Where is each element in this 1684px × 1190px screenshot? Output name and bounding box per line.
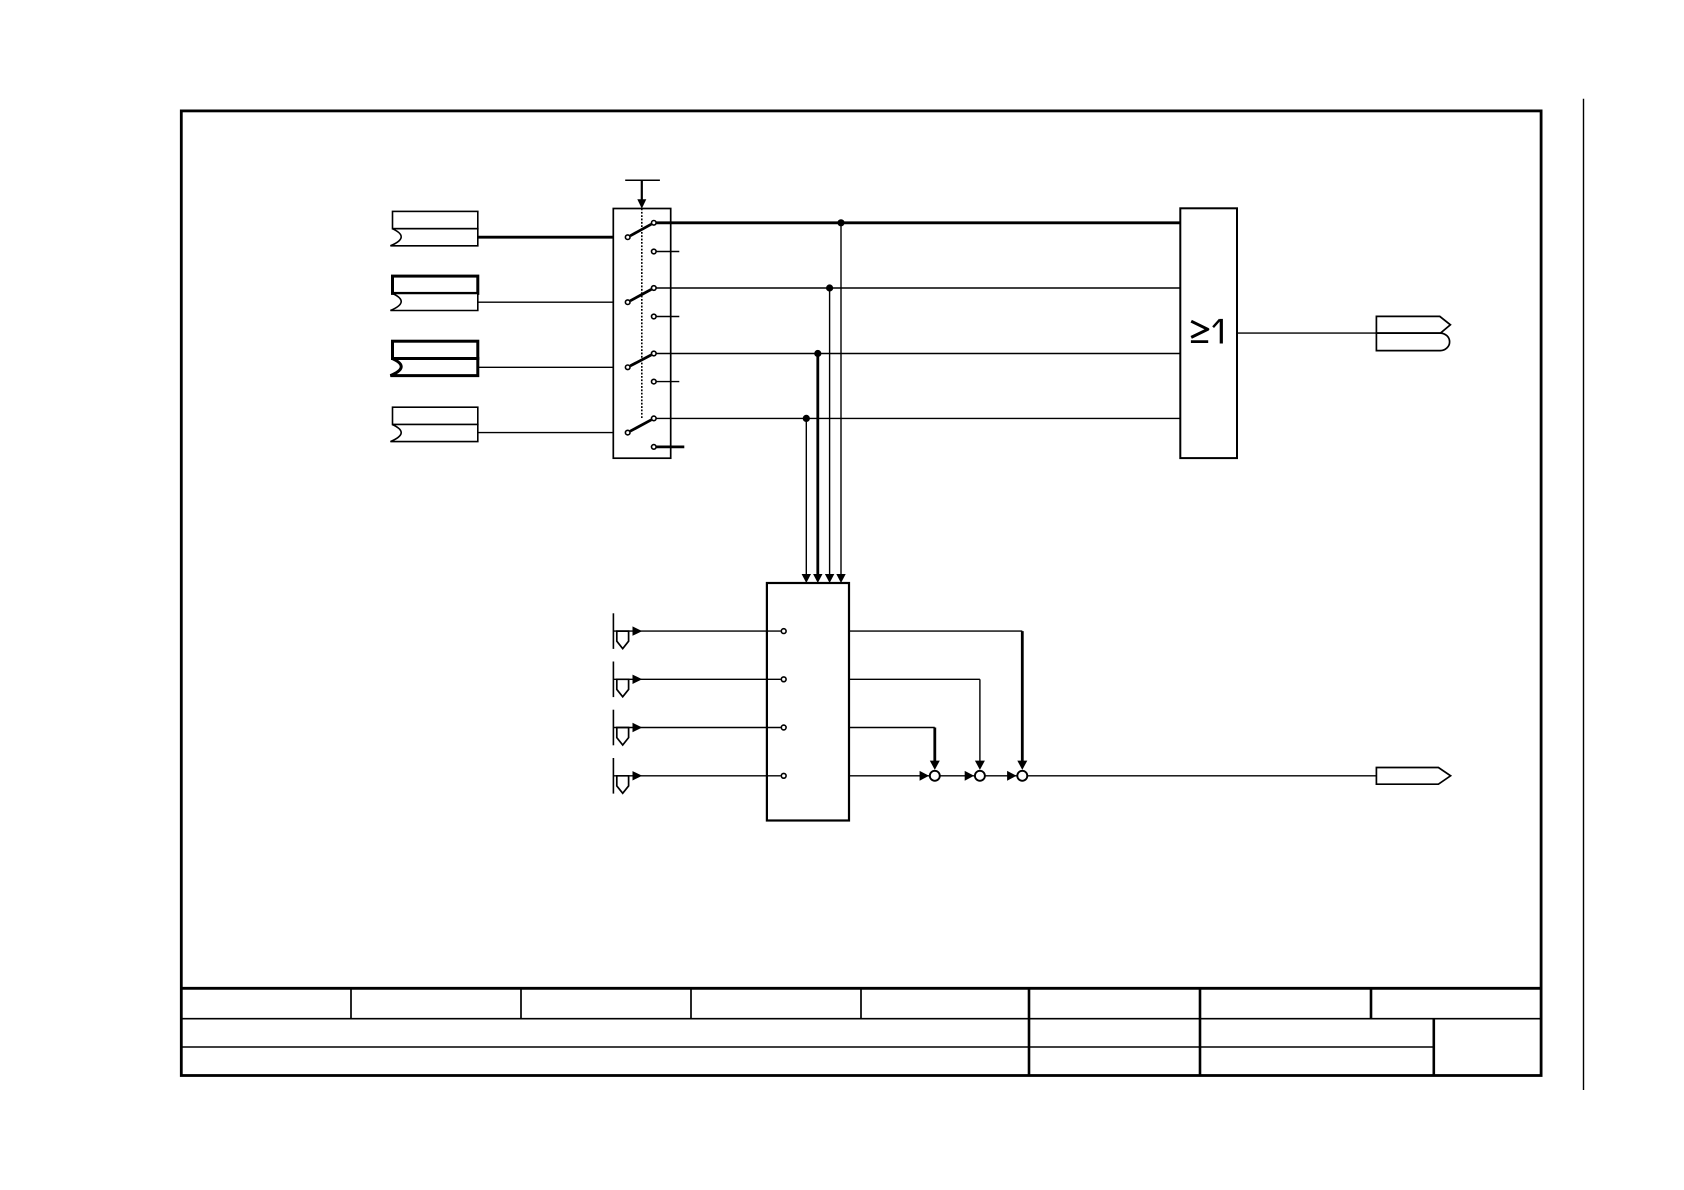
connector X1 (input) [390, 211, 477, 245]
node K2 [975, 771, 985, 781]
wire net N1: S1.1 to U1 [656, 221, 1180, 224]
drop to node K2 [979, 679, 981, 761]
drop to node K1 (bold) [933, 728, 936, 762]
U2 input contact row1 [781, 629, 786, 634]
U1 function label ">=1" [1191, 319, 1221, 344]
switch block S1 [613, 209, 670, 459]
connector X3 (input) [390, 341, 477, 375]
arrow into K1 [920, 771, 929, 781]
connector Y1 (output) [1376, 316, 1450, 350]
drop to node K3 (bold) [1021, 631, 1024, 761]
wire U2 out row2 [849, 678, 980, 680]
continuation flag F3 [613, 710, 780, 746]
U2 input contact row4 [781, 773, 786, 778]
node K3 [1017, 771, 1027, 781]
U2 input contact row3 [781, 725, 786, 730]
wire U2 out row1 [849, 630, 1022, 632]
OR gate U1 [1180, 208, 1237, 458]
U2 input contact row2 [781, 677, 786, 682]
wire X1 to S1.1 [478, 236, 625, 239]
node K1 [930, 771, 940, 781]
switch pole S1.3 [625, 351, 679, 384]
continuation flag F4 [613, 758, 780, 794]
title block [181, 988, 1541, 1075]
wire U2 out row3 [849, 727, 935, 729]
tap wire N4 to U2 pin4 [805, 418, 807, 574]
connector Y2 (output) [1376, 768, 1450, 785]
switch pole S1.4 [625, 416, 684, 449]
connector X4 (input) [390, 407, 477, 441]
wire net N3: S1.3 to U1 [656, 353, 1180, 355]
junction N1 [837, 219, 844, 226]
junction N4 [803, 415, 810, 422]
right margin fold line [1583, 99, 1585, 1090]
wire U1 output to Y1 [1237, 332, 1376, 334]
junction N3 [814, 350, 821, 357]
continuation flag F2 [613, 662, 780, 698]
wire net N4: S1.4 to U1 [656, 417, 1180, 419]
switch pole S1.1 [625, 221, 679, 254]
tap wire N1 to U2 pin1 [840, 223, 842, 575]
wire X3 to S1.3 [478, 366, 625, 368]
linkage dotted line [641, 209, 643, 420]
connector X2 (input) [390, 276, 477, 310]
wire X2 to S1.2 [478, 301, 625, 303]
tap wire N2 to U2 pin2 [829, 288, 831, 575]
wire X4 to S1.4 [478, 432, 625, 434]
junction N2 [826, 284, 833, 291]
actuator T-bar [625, 179, 660, 181]
drawing frame [181, 111, 1541, 1076]
arrow into K3 [1007, 771, 1016, 781]
tap wire N3 to U2 pin3 (bold) [816, 354, 819, 575]
arrow into K2 [965, 771, 974, 781]
continuation flag F1 [613, 613, 780, 649]
switch pole S1.2 [625, 286, 679, 319]
actuator arrow [641, 180, 643, 200]
function block U2 [767, 583, 849, 821]
wire net N2: S1.2 to U1 [656, 287, 1180, 289]
wire U2 out row4 to Y2 [849, 775, 1376, 777]
